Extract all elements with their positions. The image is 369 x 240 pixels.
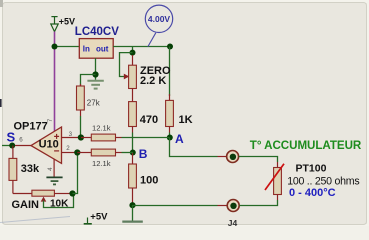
wire terminal1 to PT100 (239, 157, 278, 163)
resistor 470 (129, 102, 159, 133)
node S (2, 129, 16, 148)
svg-text:A: A (175, 132, 184, 146)
svg-text:GAIN: GAIN (12, 199, 40, 211)
svg-text:33k: 33k (21, 163, 40, 175)
wire regulator gnd pin (95, 58, 97, 80)
wire V+ vertical (purple net) (54, 32, 56, 132)
svg-text:In: In (83, 45, 90, 54)
wire 12.1k lower to node B (122, 152, 134, 154)
wire 27k to pin3 node (80, 116, 82, 138)
svg-text:2: 2 (66, 145, 70, 152)
terminal J4 pin 2 (218, 200, 240, 229)
svg-text:0 - 400°C: 0 - 400°C (289, 187, 336, 199)
wire rail right (out) (113, 46, 170, 48)
svg-text:T° ACCUMULATEUR: T° ACCUMULATEUR (250, 139, 362, 152)
svg-text:S: S (7, 129, 16, 144)
svg-text:7: 7 (47, 118, 54, 122)
junction rail right (167, 44, 173, 50)
junction bottom rail (129, 202, 135, 208)
svg-text:27k: 27k (87, 99, 101, 108)
svg-text:+5V: +5V (59, 17, 75, 27)
wire terminal2 to PT100 (239, 200, 277, 206)
svg-text:12.1k: 12.1k (92, 123, 111, 132)
junction pin3 (78, 134, 84, 140)
resistor 33k (9, 146, 40, 194)
svg-text:12.1k: 12.1k (92, 159, 111, 168)
svg-text:J4: J4 (228, 218, 238, 226)
wire 12.1k upper to node A (122, 137, 170, 139)
wire 1K to node A (169, 133, 171, 138)
resistor 100 (129, 153, 159, 206)
wire feedback to pin2 (73, 153, 78, 194)
ground under op-amp (46, 177, 62, 184)
svg-text:1K: 1K (179, 114, 193, 126)
svg-text:100: 100 (140, 175, 158, 187)
potentiometer ZERO 2.2K (120, 47, 172, 102)
svg-text:3: 3 (69, 131, 73, 138)
svg-text:2.2 K: 2.2 K (140, 75, 166, 87)
ground bottom (122, 205, 143, 222)
svg-text:B: B (139, 147, 148, 161)
wire elbow gnd to 27k (81, 75, 96, 87)
wire node A to terminal 1 (170, 138, 218, 157)
thermistor PT100 (265, 162, 359, 200)
regulator LC40CV (75, 26, 119, 58)
svg-text:4.00V: 4.00V (148, 14, 171, 24)
ground under regulator (87, 81, 103, 89)
svg-text:4: 4 (47, 167, 54, 171)
junction pin2 (74, 149, 80, 155)
wire rail to 1K (169, 47, 171, 97)
node A (167, 135, 173, 141)
wire rail left (55, 46, 80, 48)
terminal J4 pin 1 (218, 151, 239, 163)
junction gnd pin (92, 71, 98, 77)
svg-text:+5V: +5V (90, 211, 108, 222)
node B (130, 150, 136, 156)
power +5V bottom (84, 211, 108, 224)
wire bottom rail to terminal 2 (133, 205, 218, 207)
resistor 1K (166, 94, 193, 133)
svg-text:OP177: OP177 (14, 120, 48, 132)
op-amp U1 0 OP177 (12, 118, 81, 177)
power +5V top (51, 17, 58, 32)
wire 33k to pot GAIN (13, 193, 32, 195)
svg-text:6: 6 (19, 137, 23, 144)
svg-text:U10: U10 (39, 138, 59, 150)
resistor 12.1k lower (77, 149, 121, 168)
resistor 27k (77, 84, 101, 116)
svg-text:out: out (96, 45, 109, 54)
svg-text:PT100: PT100 (296, 163, 327, 175)
junction feedback (69, 190, 75, 196)
voltmeter 4.00V (145, 5, 172, 47)
svg-text:100 .. 250 ohms: 100 .. 250 ohms (287, 175, 359, 187)
wire 470 to node B (crosses A wire) (132, 133, 134, 153)
svg-text:10K: 10K (50, 199, 69, 210)
svg-text:470: 470 (140, 114, 158, 126)
svg-text:LC40CV: LC40CV (75, 26, 119, 38)
junction rail-left (52, 44, 58, 50)
resistor 12.1k upper (81, 123, 122, 141)
potentiometer GAIN 10K (12, 190, 74, 211)
